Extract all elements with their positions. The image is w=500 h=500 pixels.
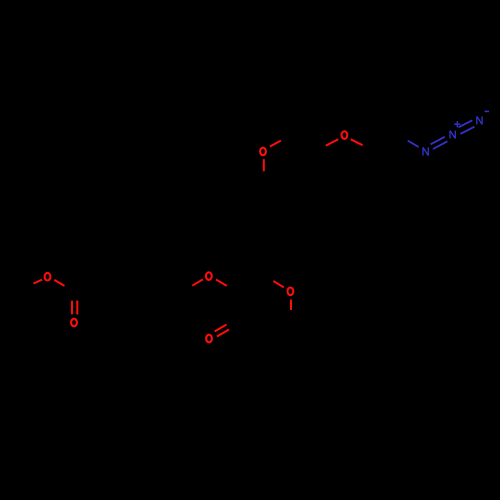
bond CH2 to azide N1 (blue half) (408, 141, 419, 147)
N2 plus charge (454, 121, 460, 127)
aryl ether oxygen O1 (260, 148, 266, 156)
azide nitrogen N3 (477, 116, 482, 124)
bond O4 down to C (red half) (290, 300, 292, 311)
azide nitrogen N1 (423, 147, 428, 155)
N1=N2 double bond line 2 (433, 141, 447, 149)
N2=N3 double bond line 2 (460, 127, 474, 134)
bond O1 up-right to CH2 (red half) (270, 141, 281, 147)
bond O2 right to CH2 (red half) (351, 139, 363, 145)
bond CH2 to O2 left (red half) (326, 139, 339, 146)
ester C=O double bond line 1 (71, 301, 73, 315)
ester methyl ether oxygen O_a (45, 273, 51, 281)
ester carbonyl oxygen O_b (71, 319, 77, 327)
bond CH3 to O3 (red half) (192, 279, 203, 285)
N2=N3 double bond line 1 (459, 120, 473, 127)
azide nitrogen N2 (450, 131, 455, 139)
ketone C=O double bond line 1 (215, 325, 227, 332)
ketone C=O double bond line 2 (217, 330, 229, 337)
N1=N2 double bond line 1 (431, 137, 445, 145)
ester C=O double bond line 2 (76, 301, 78, 315)
bond ring C to O4 (red half) (273, 281, 284, 287)
methoxy oxygen O3 (206, 272, 212, 280)
pyran ring oxygen O4 (288, 288, 294, 296)
bond O3 to ring C (red half) (216, 280, 227, 286)
bond O1 down to aryl C (red half) (263, 159, 265, 171)
ketone oxygen O_c (206, 335, 212, 343)
bond O_a to carbonyl C (red half) (54, 280, 64, 286)
N3 minus charge (485, 110, 489, 112)
bond CH3 to O_a (red half) (33, 280, 42, 284)
chain ether oxygen O2 (342, 131, 348, 139)
